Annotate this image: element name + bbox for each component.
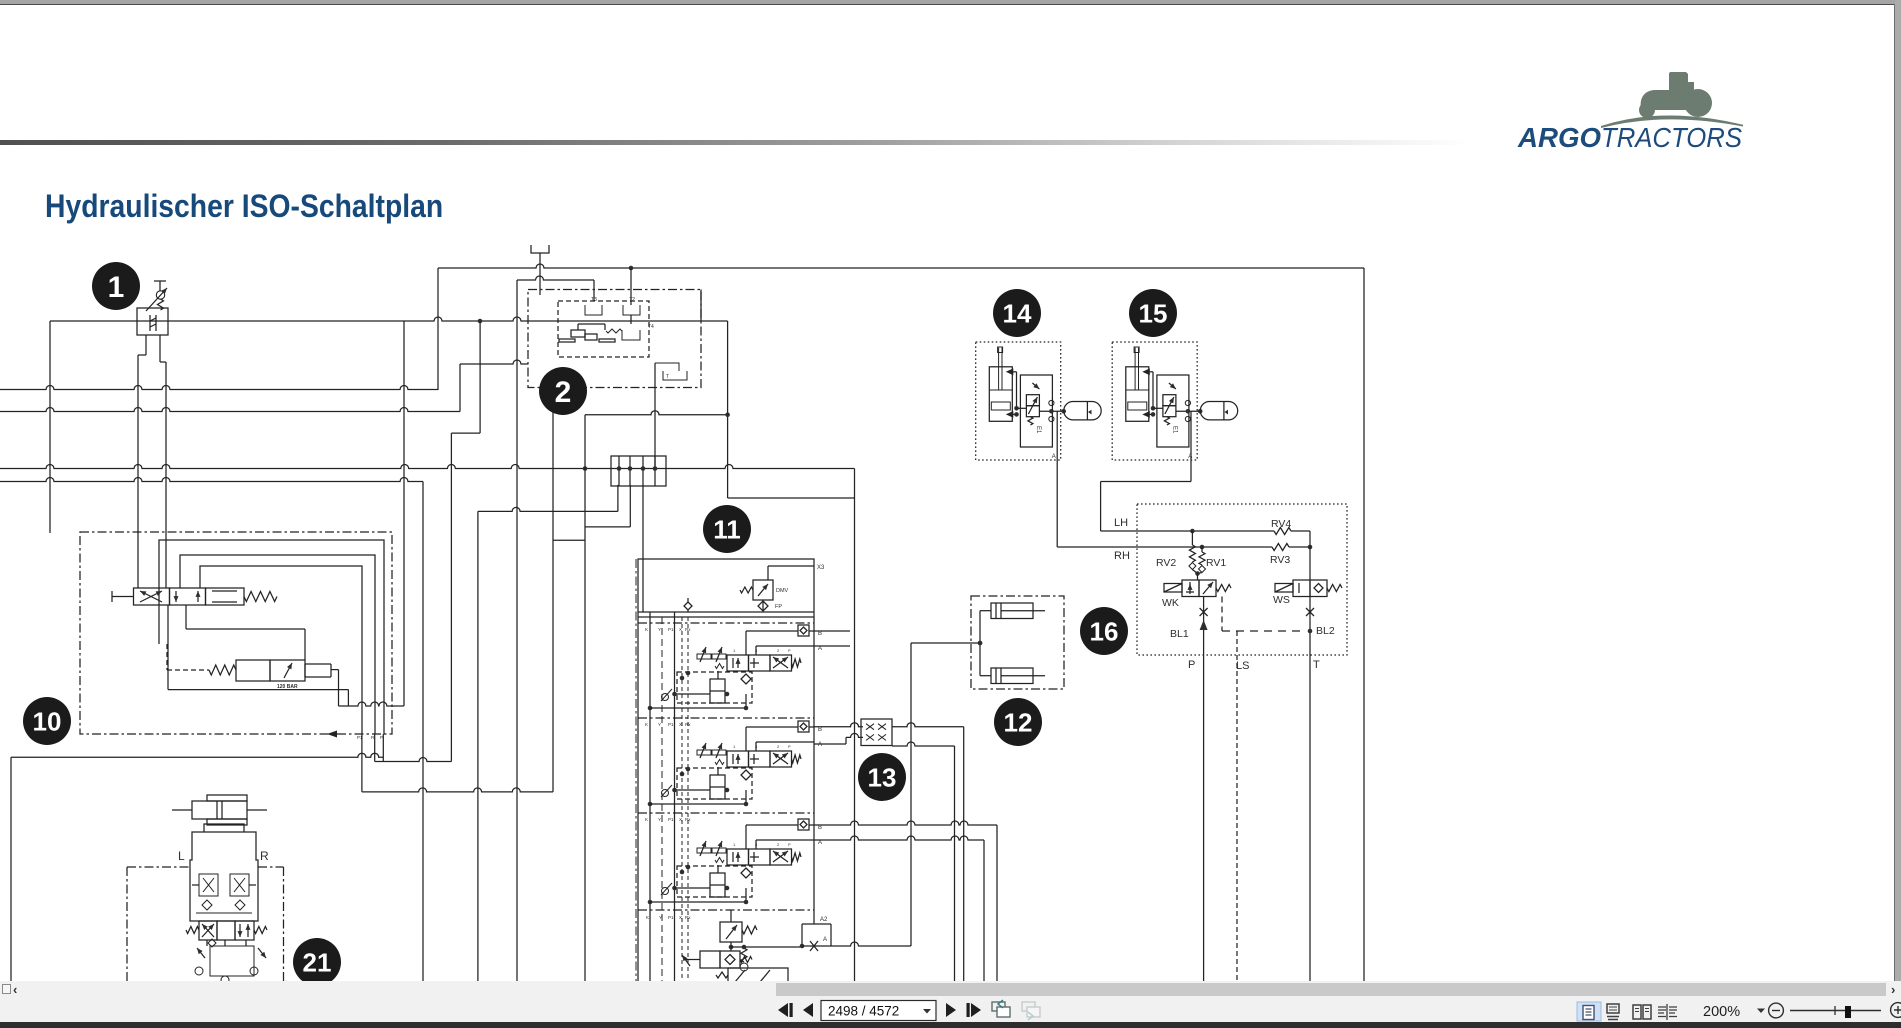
svg-text:T3: T3	[591, 297, 597, 303]
svg-text:RV3: RV3	[1270, 554, 1290, 566]
svg-text:P1: P1	[668, 722, 674, 727]
svg-text:E1: E1	[1172, 426, 1178, 434]
svg-text:LS: LS	[1236, 660, 1249, 672]
svg-text:11: 11	[713, 514, 741, 544]
svg-text:BL2: BL2	[1316, 625, 1335, 637]
svg-text:P1: P1	[668, 627, 674, 632]
svg-text:Rx: Rx	[685, 817, 691, 822]
svg-text:LH: LH	[1114, 517, 1128, 529]
svg-text:3: 3	[755, 842, 758, 847]
svg-text:T: T	[1313, 659, 1320, 671]
svg-text:RH: RH	[1114, 550, 1130, 562]
svg-text:T4: T4	[648, 324, 654, 330]
svg-text:L: L	[178, 849, 185, 863]
svg-text:P: P	[1188, 659, 1195, 671]
svg-text:14: 14	[1003, 298, 1032, 328]
svg-text:P: P	[788, 744, 791, 749]
svg-text:RV1: RV1	[1206, 557, 1226, 569]
svg-text:2: 2	[555, 376, 572, 409]
svg-text:P: P	[380, 735, 383, 740]
svg-text:Y: Y	[658, 722, 661, 727]
svg-text:P: P	[788, 842, 791, 847]
svg-text:WS: WS	[1273, 594, 1290, 606]
svg-text:1: 1	[733, 744, 736, 749]
svg-text:10: 10	[33, 706, 62, 736]
svg-text:200%: 200%	[1703, 1004, 1740, 1020]
svg-text:K: K	[645, 627, 648, 632]
svg-text:R: R	[260, 849, 269, 863]
svg-text:A: A	[818, 646, 822, 652]
svg-text:X: X	[679, 817, 682, 822]
svg-text:A: A	[823, 937, 827, 943]
svg-text:RV2: RV2	[1156, 557, 1176, 569]
svg-text:K: K	[646, 915, 649, 920]
svg-text:T: T	[666, 374, 669, 380]
svg-text:2498 / 4572: 2498 / 4572	[828, 1004, 899, 1019]
svg-text:WK: WK	[1162, 597, 1179, 609]
svg-text:FP: FP	[775, 604, 782, 610]
svg-text:A: A	[818, 742, 822, 748]
svg-text:16: 16	[1090, 616, 1119, 646]
svg-text:1: 1	[108, 271, 125, 304]
svg-text:13: 13	[868, 762, 897, 792]
svg-text:E1: E1	[1035, 426, 1041, 434]
svg-text:P: P	[788, 648, 791, 653]
svg-text:A: A	[818, 840, 822, 846]
svg-text:A2: A2	[820, 917, 828, 923]
svg-text:BL1: BL1	[1170, 628, 1189, 640]
svg-text:Y: Y	[658, 627, 661, 632]
svg-text:Y: Y	[659, 915, 662, 920]
svg-text:1: 1	[733, 648, 736, 653]
svg-text:X3: X3	[817, 565, 825, 571]
svg-text:DMV: DMV	[776, 588, 789, 594]
svg-text:K: K	[645, 817, 648, 822]
svg-text:A: A	[1052, 454, 1056, 460]
svg-text:B: B	[818, 631, 822, 637]
svg-text:P1: P1	[668, 915, 674, 920]
svg-text:2: 2	[777, 842, 780, 847]
svg-text:K: K	[645, 722, 648, 727]
svg-text:2: 2	[777, 744, 780, 749]
svg-text:1: 1	[733, 842, 736, 847]
svg-text:21: 21	[303, 947, 332, 977]
svg-text:T2: T2	[629, 297, 635, 303]
svg-text:B: B	[818, 727, 822, 733]
svg-text:Rx: Rx	[685, 627, 691, 632]
svg-text:12: 12	[1004, 707, 1033, 737]
svg-text:Y: Y	[658, 817, 661, 822]
svg-text:3: 3	[755, 744, 758, 749]
svg-text:Rx: Rx	[685, 915, 691, 920]
svg-text:P1: P1	[668, 817, 674, 822]
svg-text:X: X	[679, 915, 682, 920]
svg-text:RV4: RV4	[1271, 518, 1291, 530]
svg-text:X: X	[679, 722, 682, 727]
svg-text:B: B	[818, 825, 822, 831]
svg-text:15: 15	[1139, 298, 1168, 328]
svg-text:X: X	[679, 627, 682, 632]
svg-text:2: 2	[777, 648, 780, 653]
svg-text:Rx: Rx	[685, 722, 691, 727]
svg-text:3: 3	[755, 648, 758, 653]
